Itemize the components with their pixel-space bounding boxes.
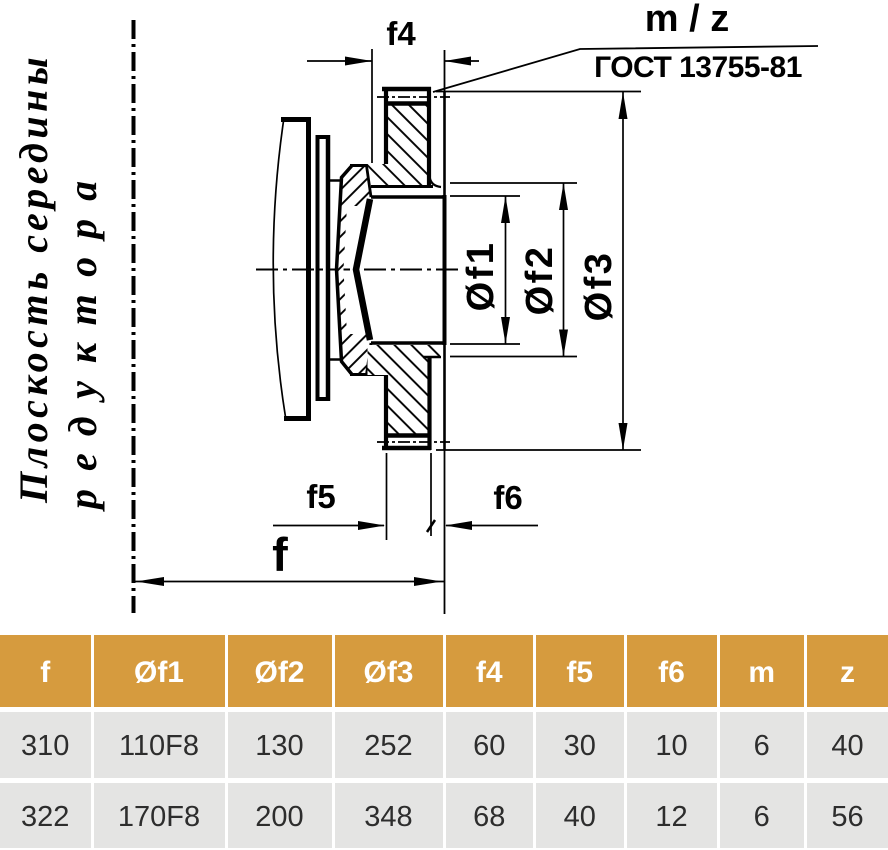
f6 arrow bbox=[445, 521, 472, 530]
plate top edge bbox=[316, 135, 331, 139]
hub top block hatch bbox=[341, 166, 371, 206]
hub connector line top bbox=[329, 179, 340, 182]
leader line bbox=[433, 46, 818, 92]
f4 extension line left bbox=[371, 49, 373, 163]
gear right face upper segment bbox=[443, 91, 446, 197]
dim Of1 line bbox=[505, 196, 507, 344]
svg-text:ГОСТ 13755-81: ГОСТ 13755-81 bbox=[594, 51, 802, 84]
rim left edge upper bbox=[384, 87, 388, 164]
f6 extension line bbox=[430, 453, 432, 536]
plate right edge bbox=[326, 135, 331, 401]
dim f4 line left bbox=[307, 60, 372, 62]
ext Of2 top bbox=[450, 182, 577, 184]
hub bottom block hatch bbox=[341, 334, 371, 374]
rim right edge lower bbox=[427, 356, 431, 450]
gear right face lower segment bbox=[443, 343, 446, 450]
Of3 arrow top bbox=[619, 92, 628, 119]
svg-text:f5: f5 bbox=[306, 478, 335, 515]
ext Of1 bottom bbox=[450, 343, 520, 345]
svg-text:Øf1: Øf1 bbox=[460, 241, 502, 312]
bore right edge bbox=[443, 195, 447, 345]
svg-text:f6: f6 bbox=[493, 479, 522, 516]
svg-text:f4: f4 bbox=[386, 15, 416, 52]
hub inner slant bottom bbox=[367, 343, 372, 375]
tooth tip top bbox=[382, 87, 431, 92]
pitch line top bbox=[377, 96, 450, 98]
svg-text:f: f bbox=[272, 528, 288, 581]
hub cone wall hatch bbox=[338, 206, 348, 334]
pitch line bottom bbox=[377, 441, 450, 443]
ext Of1 top bbox=[450, 195, 520, 197]
horizontal centerline bbox=[256, 269, 458, 271]
ext Of3 top bbox=[436, 91, 641, 93]
bore top edge bbox=[371, 195, 446, 199]
svg-text:Плоскость середины: Плоскость середины bbox=[11, 53, 56, 504]
plate left edge bbox=[316, 135, 320, 401]
corner fillet upper bbox=[430, 176, 442, 187]
hub inner slant top bbox=[367, 166, 372, 198]
wheel disc right edge bbox=[306, 117, 311, 421]
gear rim upper hatch bbox=[368, 104, 429, 185]
ext Of2 bottom bbox=[450, 356, 577, 358]
reducer midplane dash-dot line bbox=[132, 20, 136, 613]
f arrow left bbox=[136, 577, 164, 586]
Of3 arrow bottom bbox=[619, 423, 628, 450]
dim f5 line bbox=[273, 525, 384, 527]
hub top edge bbox=[350, 164, 368, 167]
gear right face extension line bbox=[444, 50, 446, 614]
dim Of2 line bbox=[563, 183, 565, 357]
f4 arrow left bbox=[345, 57, 372, 66]
svg-text:Øf3: Øf3 bbox=[578, 251, 620, 322]
gear rim lower hatch bbox=[368, 345, 441, 434]
ext Of3 bottom bbox=[436, 449, 641, 451]
f5 arrow bbox=[358, 521, 385, 530]
rim step lower bbox=[423, 356, 441, 359]
Of1 arrow top bbox=[501, 196, 510, 223]
f arrow right bbox=[414, 577, 442, 586]
rim left edge lower bbox=[384, 375, 388, 450]
tapered bore edge bbox=[356, 199, 370, 340]
dim f4 line right bbox=[445, 60, 480, 62]
f6 tick bbox=[427, 520, 435, 532]
hub connector line bottom bbox=[329, 358, 340, 361]
tooth root top bbox=[385, 101, 429, 106]
wheel disc top edge bbox=[281, 117, 311, 122]
svg-text:Øf2: Øf2 bbox=[519, 245, 561, 316]
rim step upper bbox=[371, 185, 433, 188]
Of1 arrow bottom bbox=[501, 317, 510, 344]
data table bbox=[0, 635, 888, 848]
f5 extension line bbox=[386, 453, 388, 540]
bore bottom edge bbox=[371, 341, 446, 345]
dim Of3 line bbox=[622, 92, 624, 450]
svg-text:m / z: m / z bbox=[645, 0, 729, 40]
wheel disc bottom edge bbox=[284, 416, 311, 421]
Of2 arrow bottom bbox=[559, 330, 568, 357]
dim f line bbox=[134, 581, 445, 583]
dim f6 line bbox=[446, 525, 538, 527]
tooth tip bottom bbox=[382, 446, 431, 451]
f4 arrow right bbox=[445, 57, 472, 66]
rim right edge upper bbox=[427, 87, 431, 187]
hub cone outer edge bbox=[337, 166, 353, 375]
hub bottom edge bbox=[350, 373, 385, 376]
plate bottom edge bbox=[316, 397, 331, 401]
tooth root bottom bbox=[385, 433, 429, 438]
Of2 arrow top bbox=[559, 183, 568, 210]
svg-text:редуктора: редуктора bbox=[60, 163, 105, 512]
wheel disc left curved edge bbox=[273, 121, 285, 417]
